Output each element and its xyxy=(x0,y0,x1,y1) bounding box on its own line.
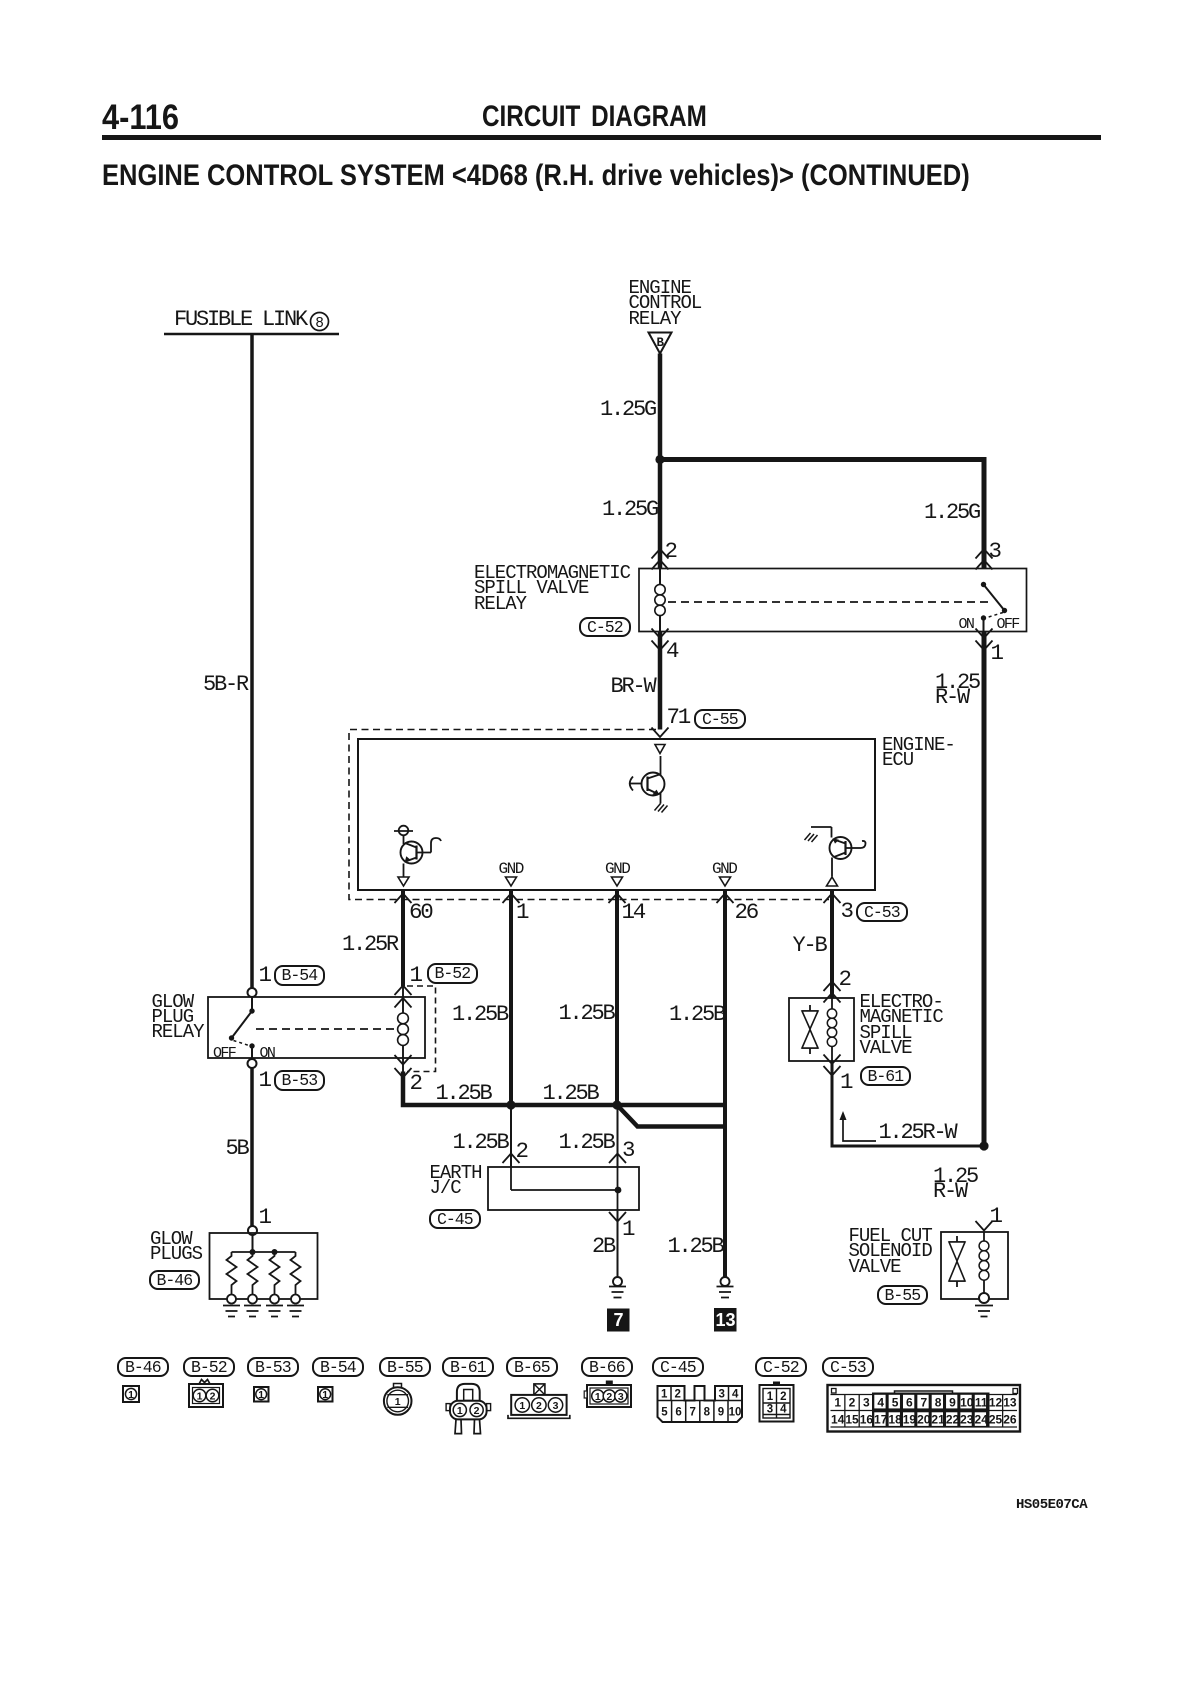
svg-text:2: 2 xyxy=(674,1389,680,1401)
svg-text:1: 1 xyxy=(128,1389,134,1401)
svg-text:2: 2 xyxy=(474,1405,480,1417)
svg-text:1: 1 xyxy=(767,1391,774,1403)
svg-text:7: 7 xyxy=(689,1407,695,1419)
svg-text:17: 17 xyxy=(874,1413,888,1427)
svg-text:24: 24 xyxy=(975,1413,989,1427)
svg-text:2: 2 xyxy=(780,1391,786,1403)
svg-text:4: 4 xyxy=(732,1389,739,1401)
svg-text:1: 1 xyxy=(519,1400,525,1412)
svg-text:20: 20 xyxy=(917,1413,931,1427)
svg-text:1: 1 xyxy=(322,1389,328,1401)
svg-text:3: 3 xyxy=(553,1400,559,1412)
svg-text:1: 1 xyxy=(834,1396,841,1410)
svg-text:14: 14 xyxy=(831,1413,845,1427)
svg-text:1: 1 xyxy=(661,1389,668,1401)
svg-text:7: 7 xyxy=(920,1396,927,1410)
svg-text:9: 9 xyxy=(718,1407,724,1419)
svg-text:8: 8 xyxy=(704,1407,711,1419)
svg-text:3: 3 xyxy=(863,1396,870,1410)
svg-text:2: 2 xyxy=(606,1391,612,1403)
svg-text:15: 15 xyxy=(845,1413,859,1427)
svg-text:16: 16 xyxy=(860,1413,874,1427)
svg-text:3: 3 xyxy=(618,1391,624,1403)
svg-text:2: 2 xyxy=(210,1390,216,1402)
svg-text:26: 26 xyxy=(1003,1413,1017,1427)
svg-text:18: 18 xyxy=(888,1413,902,1427)
svg-text:5: 5 xyxy=(892,1396,899,1410)
svg-text:25: 25 xyxy=(989,1413,1003,1427)
svg-text:B: B xyxy=(657,336,665,350)
svg-text:13: 13 xyxy=(1003,1396,1017,1410)
svg-text:22: 22 xyxy=(946,1413,960,1427)
svg-text:10: 10 xyxy=(960,1396,974,1410)
svg-text:3: 3 xyxy=(767,1403,773,1415)
svg-text:4: 4 xyxy=(780,1403,787,1415)
svg-text:19: 19 xyxy=(903,1413,917,1427)
svg-text:1: 1 xyxy=(258,1389,264,1401)
svg-text:1: 1 xyxy=(197,1390,203,1402)
svg-text:11: 11 xyxy=(975,1396,988,1410)
svg-text:5: 5 xyxy=(661,1407,668,1419)
svg-text:4: 4 xyxy=(877,1396,884,1410)
svg-text:23: 23 xyxy=(960,1413,974,1427)
svg-text:1: 1 xyxy=(395,1396,401,1408)
svg-text:9: 9 xyxy=(949,1396,956,1410)
svg-text:1: 1 xyxy=(457,1405,463,1417)
svg-text:8: 8 xyxy=(935,1396,942,1410)
svg-text:2: 2 xyxy=(849,1396,856,1410)
svg-text:10: 10 xyxy=(729,1407,742,1419)
svg-text:2: 2 xyxy=(536,1400,542,1412)
svg-text:6: 6 xyxy=(675,1407,681,1419)
svg-text:8: 8 xyxy=(315,316,324,332)
svg-text:3: 3 xyxy=(718,1389,724,1401)
svg-text:21: 21 xyxy=(931,1413,945,1427)
svg-text:12: 12 xyxy=(989,1396,1003,1410)
svg-text:6: 6 xyxy=(906,1396,913,1410)
svg-text:1: 1 xyxy=(595,1391,601,1403)
